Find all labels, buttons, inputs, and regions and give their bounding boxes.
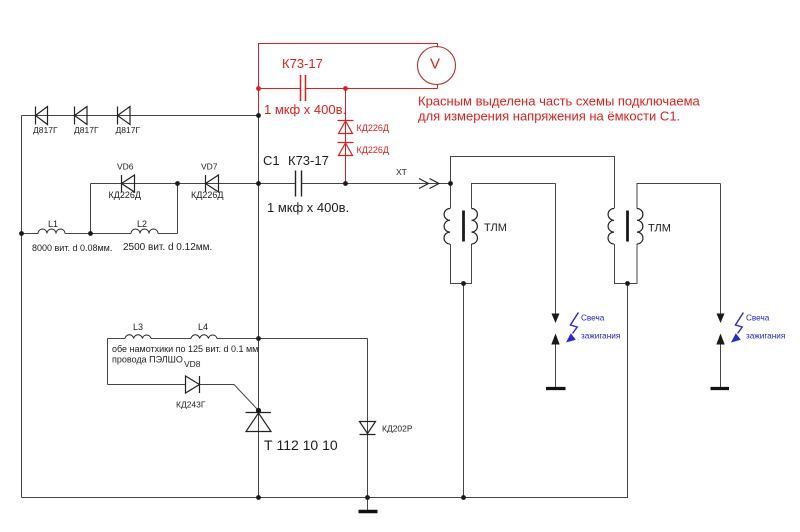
junction node red diode branch on output line [343, 181, 348, 186]
ground bottom rail [359, 510, 378, 513]
svg-text:обе намотхики по 125 вит. d 0.: обе намотхики по 125 вит. d 0.1 мм [112, 344, 258, 354]
junction node left rail / L1 [19, 231, 24, 236]
junction node C1 left [256, 181, 261, 186]
svg-text:Т 112 10 10: Т 112 10 10 [264, 437, 338, 453]
svg-text:ТЛМ: ТЛМ [484, 222, 507, 234]
svg-text:КД202Р: КД202Р [382, 424, 413, 434]
inductor L2 [131, 229, 158, 234]
junction node L4 / center line [256, 336, 261, 341]
wire left vertical rail [21, 116, 23, 498]
red diode VD5 КД226Д [338, 143, 354, 156]
svg-text:Свеча: Свеча [581, 314, 605, 323]
wire C1 output line to XT [259, 183, 451, 185]
svg-text:Д817Г: Д817Г [116, 125, 141, 135]
svg-text:зажигания: зажигания [581, 332, 620, 341]
svg-text:1 мкф х 400в.: 1 мкф х 400в. [267, 200, 349, 215]
wire KD202R branch [367, 339, 369, 498]
wire L3-L4 branch [108, 339, 368, 385]
voltmeter V [418, 47, 456, 85]
inductor L3 [125, 335, 151, 339]
svg-text:КД226Д: КД226Д [357, 145, 389, 155]
wire L1-L2 branch [22, 184, 178, 234]
spark gap 2 arrows [716, 314, 724, 345]
svg-text:К73-17: К73-17 [288, 153, 329, 168]
red capacitor К73-17 plates [301, 75, 306, 101]
wire ground stub bottom [367, 498, 369, 511]
wire XT node up and over to transformer T2 primary [451, 157, 615, 209]
wire T1 secondary top to spark gap 1 [472, 184, 556, 209]
svg-text:Свеча: Свеча [746, 314, 770, 323]
diode VD3 Д817Г [118, 107, 131, 125]
red diode VD4 КД226Д [338, 121, 354, 134]
transformer T1 secondary winding [472, 209, 478, 245]
svg-text:КД226Д: КД226Д [109, 190, 141, 200]
junction node L1-L2 / VD6 branch [88, 231, 93, 236]
svg-text:VD7: VD7 [201, 162, 218, 172]
capacitor C1 plates [296, 171, 302, 197]
connector XT chevrons [419, 179, 439, 189]
junction node red measuring tap right [343, 86, 348, 91]
svg-text:ХТ: ХТ [396, 167, 407, 177]
red measurement circuit wires [259, 44, 438, 184]
wire spark gap 1 [555, 184, 557, 388]
transformer T2 secondary winding [637, 209, 643, 245]
diode VD6 КД226Д [122, 175, 135, 192]
svg-text:провода ПЭЛШО: провода ПЭЛШО [112, 355, 183, 365]
svg-text:К73-17: К73-17 [282, 56, 323, 71]
spark plug 1 lightning icon [566, 313, 578, 343]
svg-text:L2: L2 [137, 219, 147, 229]
junction node T1 return on bottom rail [461, 495, 466, 500]
junction node T1 winding common [461, 281, 466, 286]
svg-text:КД226Д: КД226Д [357, 123, 389, 133]
junction node T2 winding common [625, 281, 630, 286]
wire center vertical (node to thyristor) [258, 116, 260, 498]
svg-text:С1: С1 [263, 153, 280, 168]
transformer T2 primary winding [608, 209, 614, 245]
diode VD8 КД243Г [186, 376, 200, 393]
inductor L1 [38, 229, 65, 234]
junction node thyristor cathode on bottom rail [256, 495, 261, 500]
wire T2 secondary top to spark gap 2 [637, 184, 721, 209]
wire top-left diode chain rail [22, 115, 259, 117]
svg-text:2500 вит. d 0.12мм.: 2500 вит. d 0.12мм. [123, 242, 212, 253]
svg-text:Д817Г: Д817Г [33, 125, 58, 135]
svg-text:Красным выделена часть схемы п: Красным выделена часть схемы подключаема [418, 94, 701, 109]
diode VD2 Д817Г [75, 107, 88, 125]
spark gap 1 arrows [551, 314, 559, 345]
wire T1 bottom loop [451, 244, 472, 284]
svg-text:L1: L1 [48, 219, 58, 229]
diode VD9 КД202Р [360, 422, 376, 435]
junction node VD6-VD7 / L2 [175, 181, 180, 186]
svg-text:L3: L3 [133, 322, 143, 332]
svg-text:L4: L4 [198, 322, 208, 332]
svg-text:8000 вит. d 0.08мм.: 8000 вит. d 0.08мм. [32, 243, 112, 253]
wire T2 center-tap drop to bottom rail [627, 284, 629, 498]
wire VD8 gate branch [108, 385, 259, 411]
svg-text:V: V [430, 56, 440, 73]
svg-text:1 мкф х 400в.: 1 мкф х 400в. [264, 102, 346, 117]
svg-text:VD6: VD6 [117, 162, 134, 172]
diode VD7 КД226Д [206, 175, 219, 192]
wire T2 bottom loop [615, 244, 638, 284]
junction node thyristor gate [256, 408, 261, 413]
inductor L4 [191, 335, 217, 339]
diode VD1 Д817Г [36, 107, 48, 125]
transformer T1 primary winding [444, 209, 450, 245]
spark plug 2 lightning icon [731, 313, 743, 343]
svg-text:КД243Г: КД243Г [176, 400, 206, 410]
svg-text:для измерения напряжения на ём: для измерения напряжения на ёмкости С1. [418, 109, 680, 124]
svg-text:зажигания: зажигания [746, 332, 785, 341]
transformer T2 core [626, 211, 629, 242]
wire VD6-VD7 branch [91, 184, 259, 234]
ground spark gap 2 [711, 387, 730, 390]
transformer T1 core [462, 211, 465, 242]
junction node red measuring tap left [256, 86, 261, 91]
junction node ground tap on bottom rail [365, 495, 370, 500]
svg-text:VD8: VD8 [184, 359, 201, 369]
wire T1 center-tap drop to bottom rail [463, 284, 465, 498]
wire spark gap 2 [720, 184, 722, 388]
svg-text:ТЛМ: ТЛМ [648, 223, 671, 235]
wire T1 primary drop [450, 184, 452, 209]
junction node diode chain / red tap [256, 113, 261, 118]
ground spark gap 1 [546, 387, 566, 390]
svg-text:КД226Д: КД226Д [191, 190, 223, 200]
thyristor VS1 Т 112 10 10 [246, 413, 272, 432]
wire bottom rail [22, 497, 629, 499]
svg-text:Д817Г: Д817Г [74, 125, 99, 135]
junction node XT output [448, 181, 453, 186]
